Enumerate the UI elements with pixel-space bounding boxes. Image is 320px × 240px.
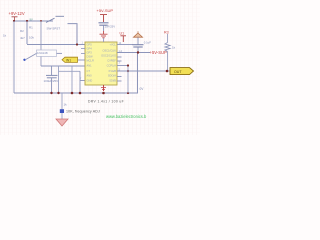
resistor R1 <box>27 21 34 44</box>
svg-text:OSC1/CLKI: OSC1/CLKI <box>102 48 116 52</box>
ground (red) under chip <box>101 85 106 91</box>
power flag VDD <box>120 32 127 42</box>
svg-text:CT: CT <box>87 69 91 73</box>
wire chip pin7 drop <box>79 71 81 93</box>
junction switch/row <box>76 43 78 45</box>
wire top rail <box>13 20 53 22</box>
junction node A <box>13 20 15 22</box>
svg-text:+5V-SUP: +5V-SUP <box>150 50 168 55</box>
wire vertical x72 <box>71 66 73 93</box>
svg-text:CVREF: CVREF <box>107 58 116 62</box>
potentiometer RV1 10K <box>60 93 100 119</box>
svg-text:+9V-12V: +9V-12V <box>9 11 25 16</box>
svg-text:+5V-SUP: +5V-SUP <box>97 8 114 13</box>
svg-text:R3: R3 <box>164 30 169 34</box>
svg-text:9V: 9V <box>30 17 33 21</box>
port flag IN <box>62 57 85 62</box>
switch SW1 <box>46 16 77 44</box>
svg-text:10K, frequency ADJ: 10K, frequency ADJ <box>66 110 100 114</box>
svg-text:100uF/25V: 100uF/25V <box>44 79 59 83</box>
svg-text:DSW: DSW <box>87 55 94 59</box>
svg-text:DRV 1.4x1 / 100 uF: DRV 1.4x1 / 100 uF <box>88 100 124 104</box>
svg-text:IN1: IN1 <box>66 58 71 62</box>
svg-text:1k: 1k <box>3 34 7 38</box>
diode D1 <box>23 50 56 61</box>
junction rail dots <box>50 92 129 95</box>
capacitor C3 0.1uF <box>133 41 152 53</box>
ground (red) above chip <box>100 31 108 38</box>
svg-text:P1A/B: P1A/B <box>109 69 117 73</box>
capacitor C2 1uF <box>99 23 116 31</box>
port flag OUT <box>170 68 194 75</box>
pin stubs left <box>81 49 85 54</box>
svg-text:4k7: 4k7 <box>20 36 25 40</box>
wire output row <box>117 70 170 72</box>
svg-text:1k: 1k <box>64 102 68 106</box>
junction output node <box>166 70 169 73</box>
wire y44 row <box>27 44 85 46</box>
svg-text:GND: GND <box>87 79 93 83</box>
vcc arrow <box>134 31 143 44</box>
svg-text:OSC2/CLKO: OSC2/CLKO <box>101 53 116 57</box>
svg-text:AN1: AN1 <box>87 64 93 68</box>
wire y71 row left <box>59 70 81 72</box>
ground rail wire <box>14 53 138 93</box>
junction node C <box>40 20 42 22</box>
svg-text:SDI/B: SDI/B <box>109 79 116 83</box>
wire left vertical <box>13 21 15 93</box>
svg-text:0.1uF: 0.1uF <box>144 41 151 45</box>
svg-text:GP4: GP4 <box>87 47 93 51</box>
wire +5V net row <box>117 52 150 54</box>
resistor R3 <box>164 30 176 71</box>
svg-text:CCP1/A: CCP1/A <box>107 63 117 67</box>
svg-text:U1: U1 <box>120 32 125 36</box>
svg-text:1N4148: 1N4148 <box>37 51 48 55</box>
svg-text:OUT: OUT <box>174 70 182 74</box>
capacitor C1 100uF <box>44 66 59 93</box>
svg-text:MCLR: MCLR <box>87 59 94 63</box>
svg-text:R1: R1 <box>29 26 33 30</box>
svg-text:+VCL: +VCL <box>109 43 116 47</box>
wire vertical x58 <box>58 66 60 93</box>
svg-text:GP3: GP3 <box>87 51 93 55</box>
svg-text:1k: 1k <box>172 45 176 49</box>
svg-text:SDO/A: SDO/A <box>108 74 116 78</box>
svg-text:10k: 10k <box>29 36 34 40</box>
wire chip top pin <box>103 38 105 42</box>
ground <box>56 119 68 126</box>
junction x128 <box>127 64 129 66</box>
pin stubs right <box>117 45 133 82</box>
svg-text:GP5: GP5 <box>87 43 93 47</box>
power flag +9V-12V <box>9 11 25 20</box>
wire x128 drop <box>127 66 129 94</box>
resistor R2 <box>3 21 41 66</box>
svg-text:AN0: AN0 <box>87 74 93 78</box>
junction +5V <box>137 51 139 53</box>
wire y66 row <box>41 65 85 67</box>
pin numbers <box>80 42 123 81</box>
svg-text:SW-SPST: SW-SPST <box>47 26 61 30</box>
wire diode to port <box>57 52 63 54</box>
power flag +5V-SUP top <box>97 8 114 22</box>
svg-text:R2: R2 <box>20 29 24 33</box>
svg-text:www.bazielectronics.b: www.bazielectronics.b <box>106 114 147 119</box>
svg-text:1uF/25V: 1uF/25V <box>105 25 116 29</box>
junction node B <box>26 20 28 22</box>
IC U1 <box>85 42 117 85</box>
